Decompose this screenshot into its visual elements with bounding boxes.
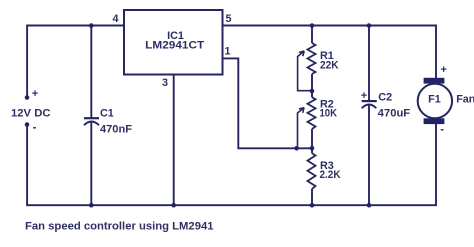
node top rail C1 bbox=[89, 23, 94, 28]
svg-text:2.2K: 2.2K bbox=[320, 169, 341, 181]
wire C1 branch lower bbox=[90, 121, 92, 205]
svg-text:12V DC: 12V DC bbox=[11, 107, 51, 119]
wire pin 3 branch bbox=[173, 75, 175, 206]
svg-text:LM2941CT: LM2941CT bbox=[145, 40, 204, 52]
svg-text:-: - bbox=[440, 124, 444, 136]
svg-text:+: + bbox=[440, 64, 446, 76]
wire R2 bottom bbox=[311, 129, 313, 148]
wire R1 top bbox=[311, 26, 313, 44]
capacitor C2 470uF bbox=[361, 90, 411, 120]
svg-text:470nF: 470nF bbox=[100, 123, 132, 135]
svg-text:+: + bbox=[361, 90, 367, 102]
svg-text:C2: C2 bbox=[378, 92, 392, 104]
node top rail C2 bbox=[367, 23, 372, 28]
svg-text:Fan: Fan bbox=[456, 93, 474, 105]
svg-text:10K: 10K bbox=[320, 108, 338, 120]
wire pin 1 route bbox=[223, 58, 313, 148]
node bottom rail C2 bbox=[367, 203, 372, 208]
node bottom rail R3 bbox=[310, 203, 315, 208]
regulator IC1 LM2941CT bbox=[124, 10, 223, 75]
wire C2 branch upper bbox=[368, 26, 370, 102]
svg-text:F1: F1 bbox=[428, 93, 441, 105]
svg-text:470uF: 470uF bbox=[378, 108, 411, 120]
svg-text:C1: C1 bbox=[100, 107, 114, 119]
node bottom rail C1 bbox=[89, 203, 94, 208]
node R1/R2 junction bbox=[310, 89, 315, 94]
node top rail R1 bbox=[310, 23, 315, 28]
resistor R1 22K bbox=[298, 43, 339, 91]
resistor R3 2.2K bbox=[308, 153, 341, 189]
wire C2 branch lower bbox=[368, 104, 370, 205]
motor F1 Fan bbox=[418, 64, 474, 136]
wire top rail right (pin 5 to fan) bbox=[223, 26, 437, 79]
svg-text:1: 1 bbox=[225, 46, 231, 58]
wire R1 bottom to node bbox=[311, 74, 313, 91]
node wiper/pin1 junction bbox=[294, 146, 299, 151]
svg-text:4: 4 bbox=[113, 13, 119, 25]
wire R3 top bbox=[311, 148, 313, 153]
wire R2 top bbox=[311, 91, 313, 97]
wire R3 bottom bbox=[311, 189, 313, 205]
svg-text:3: 3 bbox=[162, 77, 168, 89]
node R2/R3 junction bbox=[310, 146, 315, 151]
node bottom rail pin3 bbox=[171, 203, 176, 208]
svg-text:+: + bbox=[32, 88, 38, 100]
svg-text:Fan speed controller using LM2: Fan speed controller using LM2941 bbox=[25, 221, 214, 233]
wire left rail lower bbox=[27, 124, 436, 206]
wire top rail left bbox=[27, 26, 124, 98]
svg-text:-: - bbox=[33, 122, 37, 134]
wire C1 branch upper bbox=[90, 26, 92, 120]
resistor R2 10K bbox=[298, 97, 338, 148]
svg-text:5: 5 bbox=[226, 13, 232, 25]
svg-text:22K: 22K bbox=[320, 59, 339, 71]
capacitor C1 bbox=[84, 107, 132, 135]
source 12V DC bbox=[11, 88, 51, 134]
